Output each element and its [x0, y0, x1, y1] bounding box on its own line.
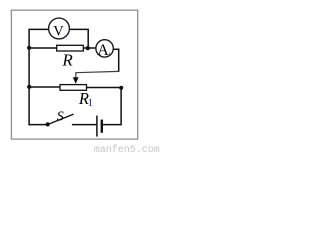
svg-text:R: R: [61, 50, 73, 69]
svg-text:S: S: [57, 109, 64, 124]
svg-text:1: 1: [88, 97, 94, 109]
svg-text:V: V: [53, 24, 64, 40]
svg-text:,: ,: [64, 29, 66, 39]
svg-text:manfen5.com: manfen5.com: [94, 144, 160, 153]
svg-text:,: ,: [108, 46, 110, 56]
